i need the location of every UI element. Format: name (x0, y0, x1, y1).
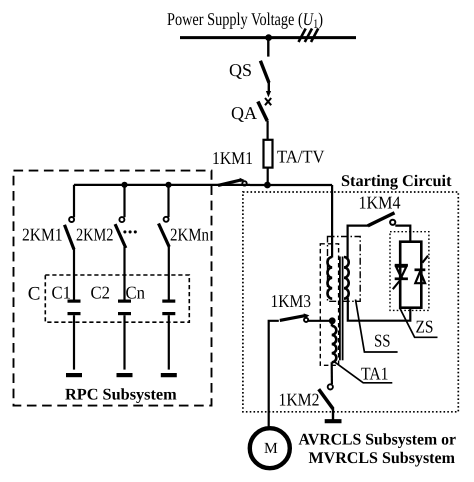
svg-text:AVRCLS Subsystem or: AVRCLS Subsystem or (299, 430, 457, 449)
svg-text:Cn: Cn (126, 283, 146, 303)
leader SS (356, 300, 398, 353)
svg-text:TA/TV: TA/TV (277, 147, 325, 167)
ground bar 1 (66, 373, 82, 377)
junction node (264, 182, 271, 189)
wire 1KM3 to tap (308, 320, 332, 322)
x mark (breaker contact) (265, 98, 271, 105)
branch 2 wire to ground (123, 315, 125, 369)
capacitor bank dashed box C (45, 275, 189, 322)
contactor 2KM2 blade (115, 224, 126, 248)
branch 3 contact circle (164, 217, 169, 222)
wire 1KM4 to thyristor block (395, 226, 410, 242)
contactor 1KM1 blade (218, 180, 241, 185)
contactor 1KM4 contact circle (390, 220, 395, 225)
svg-text:TA1: TA1 (361, 364, 389, 384)
tap junction node (329, 317, 336, 324)
svg-text:C2: C2 (91, 282, 111, 302)
node branch2 (121, 182, 127, 188)
contactor 1KM2 contact circle (328, 384, 333, 389)
bus bar (180, 36, 356, 39)
svg-text:1KM1: 1KM1 (212, 148, 253, 168)
svg-text:C: C (28, 284, 41, 305)
svg-text:QS: QS (229, 60, 252, 80)
svg-text:Starting Circuit: Starting Circuit (341, 171, 452, 190)
contactor 2KMn blade (159, 224, 170, 247)
wire motor riser (269, 321, 279, 427)
SS secondary winding (344, 257, 349, 299)
wire 1KM1 to junction to transformer (250, 184, 332, 186)
svg-text:2KMn: 2KMn (170, 225, 209, 245)
RPC bus wire (74, 184, 250, 186)
thyristor block rect (400, 242, 421, 308)
ground bar 2 (117, 373, 133, 377)
arrowhead (266, 91, 271, 97)
RPC subsystem dashed box (14, 171, 212, 406)
branch 1 wire to ground (73, 315, 75, 369)
thyristor right (up) (415, 256, 429, 284)
wire 1KM2 to bar (332, 408, 334, 420)
contactor 2KM1 blade (65, 225, 75, 250)
bus slashes (299, 29, 319, 43)
contactor 1KM3 blade (280, 316, 306, 321)
wire SS bottom loop to ZS (347, 296, 411, 321)
node branch3 (165, 182, 171, 188)
svg-text:2KM1: 2KM1 (22, 225, 63, 245)
breaker QA (258, 102, 267, 122)
svg-text:QA: QA (231, 103, 257, 123)
thyristor dashed box ZS (390, 232, 429, 311)
disconnect switch QS (260, 61, 269, 83)
contactor 1KM3 blade tip arrow (304, 313, 310, 318)
capacitor Cn (162, 300, 175, 303)
branch 1 contact circle (69, 217, 74, 222)
capacitor C1 (68, 300, 81, 303)
leader ZS (400, 309, 438, 338)
autotransformer dashed box TA1 (320, 244, 338, 365)
svg-text:2KM2: 2KM2 (76, 225, 114, 245)
svg-text:1KM4: 1KM4 (359, 193, 401, 213)
svg-text:RPC Subsystem: RPC Subsystem (65, 385, 177, 404)
wire tap to lower winding (331, 321, 334, 327)
wire TA/TV to junction (267, 168, 269, 186)
svg-text:M: M (264, 440, 278, 457)
svg-text:Power Supply Voltage (U1): Power Supply Voltage (U1) (167, 9, 323, 31)
motor M (250, 428, 290, 468)
dots ellipsis (123, 230, 137, 233)
contactor 1KM1 contact circle (242, 181, 246, 185)
TA1 upper winding (328, 257, 333, 299)
svg-text:C1: C1 (52, 282, 72, 302)
svg-text:ZS: ZS (416, 317, 434, 337)
soft starter dash-dot box SS (328, 237, 361, 302)
svg-text:1KM2: 1KM2 (279, 390, 320, 410)
contactor 1KM4 blade (368, 213, 395, 226)
branch 3 wire to cap (168, 247, 170, 300)
branch 3 upper wire (167, 185, 169, 217)
leader TA1 (334, 362, 392, 383)
transformer TA/TV (264, 140, 273, 168)
branch 1 upper wire (73, 185, 75, 217)
contactor 1KM1 blade tip arrow (240, 178, 245, 183)
wire QS to arrow (268, 83, 270, 92)
capacitor C2 (118, 300, 131, 303)
wire bus to QS (267, 38, 269, 57)
transformer core lines (339, 257, 341, 361)
svg-text:1KM3: 1KM3 (271, 291, 312, 311)
branch 2 wire to cap (123, 247, 125, 300)
TA1 lower winding (332, 326, 337, 362)
contactor 1KM3 contact circle (304, 318, 308, 322)
starting circuit dotted box (243, 192, 458, 412)
branch 2 contact circle (119, 217, 124, 222)
terminal bar (ground) (325, 419, 342, 423)
svg-text:MVRCLS Subsystem: MVRCLS Subsystem (309, 448, 456, 467)
wire lower winding to 1KM2 (331, 362, 333, 384)
node on bus (265, 34, 272, 41)
wire QA to TA/TV (267, 121, 269, 140)
contactor 1KM2 blade (319, 389, 333, 409)
branch 2 upper wire (123, 185, 125, 217)
wire SS top to 1KM4 (347, 226, 369, 260)
svg-text:SS: SS (374, 330, 391, 350)
ground bar 3 (161, 373, 177, 377)
branch 3 wire to ground (168, 315, 170, 369)
thyristor left (down) (393, 265, 408, 289)
main vertical wire to TA1 (331, 185, 333, 258)
branch 1 wire to cap (73, 249, 75, 300)
